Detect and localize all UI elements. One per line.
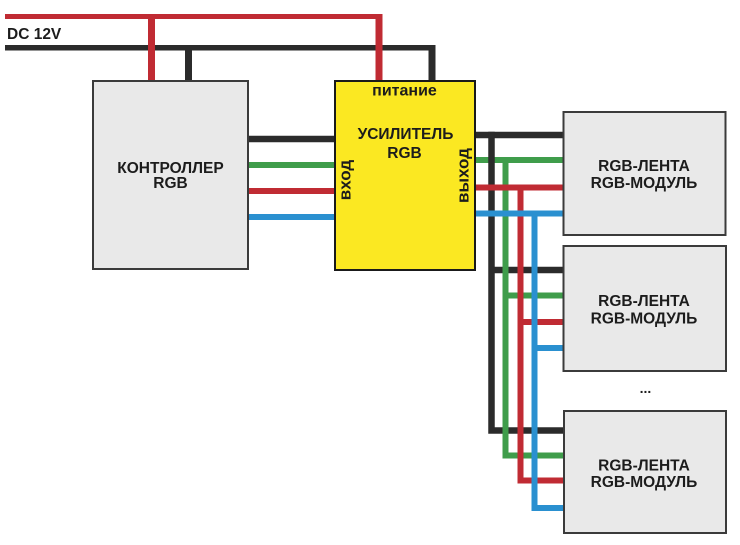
svg-text:УСИЛИТЕЛЬ: УСИЛИТЕЛЬ bbox=[358, 126, 454, 143]
strip box 3 RGB-ЛЕНТА RGB-МОДУЛЬ bbox=[564, 411, 726, 533]
svg-text:RGB-МОДУЛЬ: RGB-МОДУЛЬ bbox=[591, 474, 698, 491]
svg-text:RGB-ЛЕНТА: RGB-ЛЕНТА bbox=[598, 158, 690, 175]
wire red controller to amplifier bbox=[248, 188, 335, 194]
wire red drop to controller bbox=[148, 14, 155, 82]
svg-text:RGB-МОДУЛЬ: RGB-МОДУЛЬ bbox=[591, 311, 698, 328]
amplifier box УСИЛИТЕЛЬ RGB U1 bbox=[335, 81, 475, 270]
svg-text:вход: вход bbox=[336, 160, 355, 201]
wire blue controller to amplifier bbox=[248, 214, 335, 220]
svg-text:питание: питание bbox=[372, 83, 437, 100]
wire red amplifier output: to strip1, vertical drop, branch strip2, elbow strip3 bbox=[475, 185, 564, 481]
svg-text:RGB-МОДУЛЬ: RGB-МОДУЛЬ bbox=[591, 175, 698, 192]
svg-text:...: ... bbox=[640, 380, 652, 396]
svg-text:RGB-ЛЕНТА: RGB-ЛЕНТА bbox=[598, 458, 690, 475]
wire green vertical drop, branch strip2, elbow strip3 bbox=[506, 157, 564, 456]
svg-text:RGB: RGB bbox=[153, 175, 187, 192]
controller box КОНТРОЛЛЕР RGB bbox=[93, 81, 248, 269]
strip box 1 RGB-ЛЕНТА RGB-МОДУЛЬ bbox=[564, 112, 726, 235]
wire red drop to amplifier bbox=[376, 14, 383, 82]
svg-text:RGB: RGB bbox=[387, 145, 421, 162]
wire black drop to controller bbox=[185, 45, 192, 82]
wire green amplifier output to strip1 bbox=[475, 157, 564, 163]
wire blue amplifier output: to strip1, vertical drop, branch strip2, elbow strip3 bbox=[475, 211, 564, 509]
svg-text:RGB-ЛЕНТА: RGB-ЛЕНТА bbox=[598, 293, 690, 310]
wire black controller to amplifier bbox=[248, 136, 335, 143]
strip box 2 RGB-ЛЕНТА RGB-МОДУЛЬ bbox=[564, 246, 727, 371]
wire black +12V bus bbox=[5, 45, 435, 51]
wire red +12V bus bbox=[5, 14, 382, 19]
svg-text:DC 12V: DC 12V bbox=[7, 26, 62, 43]
wire black drop to amplifier питание bbox=[429, 45, 436, 82]
wire green controller to amplifier bbox=[248, 162, 335, 168]
wire black amplifier output: to strip1, vertical drop, branch strip2, elbow strip3 bbox=[475, 132, 564, 431]
svg-text:выход: выход bbox=[454, 148, 473, 203]
